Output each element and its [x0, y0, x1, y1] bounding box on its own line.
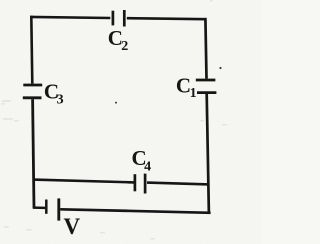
svg-text:2: 2 [121, 39, 128, 54]
svg-text:4: 4 [144, 160, 151, 175]
svg-text:1: 1 [190, 86, 197, 101]
svg-text:V: V [64, 214, 81, 239]
svg-text:3: 3 [57, 92, 64, 107]
